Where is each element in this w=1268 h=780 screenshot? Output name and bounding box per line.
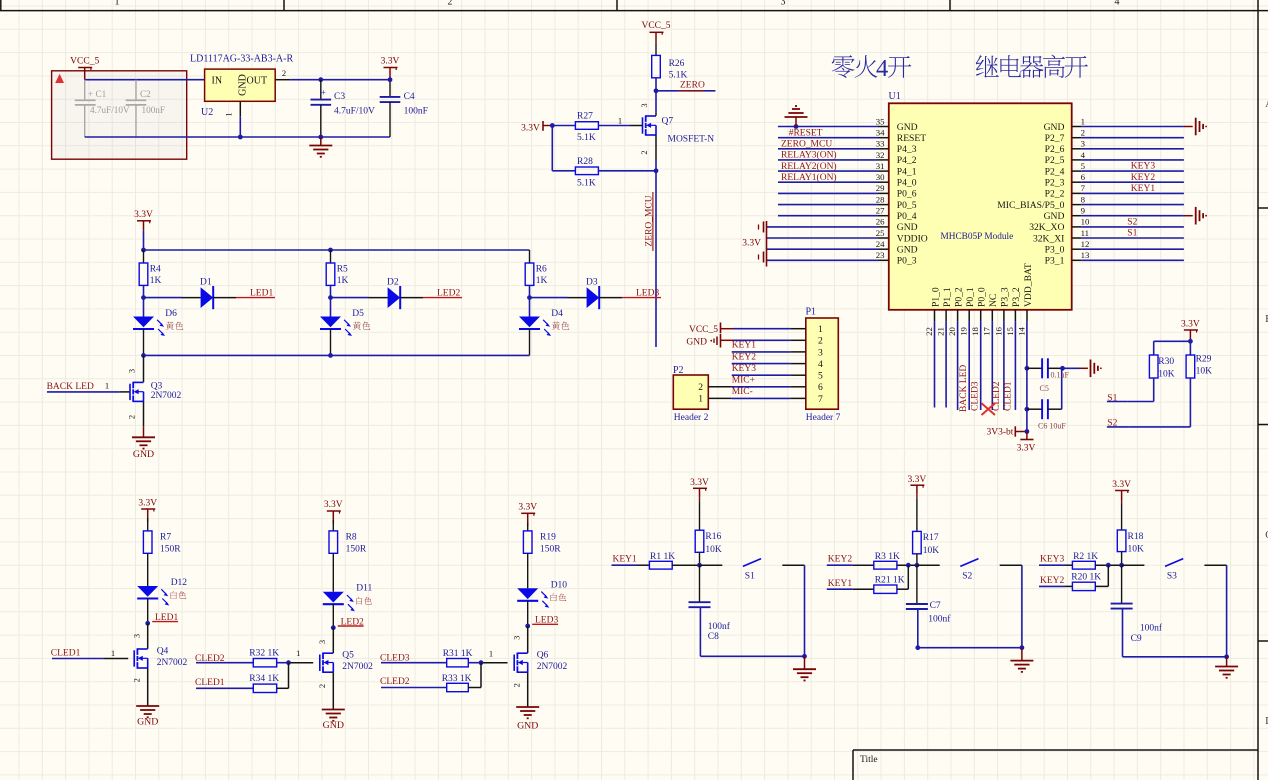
svg-text:C7: C7 (930, 601, 941, 611)
svg-text:D4: D4 (551, 309, 563, 319)
svg-text:R21 1K: R21 1K (875, 575, 905, 585)
svg-text:32K_XI: 32K_XI (1033, 233, 1064, 244)
svg-text:2: 2 (131, 678, 141, 682)
resistor R19 (523, 531, 561, 555)
svg-text:21: 21 (936, 327, 946, 336)
wire to diode D1 (144, 297, 201, 299)
wire R8 to LED (332, 553, 334, 591)
svg-text:20: 20 (947, 327, 957, 336)
resistor R16 (695, 530, 722, 555)
wire 3.3V to R16 (699, 498, 701, 530)
svg-text:1: 1 (489, 649, 493, 659)
svg-text:S1: S1 (1127, 229, 1137, 239)
net label BACK LED (47, 382, 94, 392)
capacitor C3 (311, 80, 376, 137)
wire KEY2 to R3 (853, 564, 874, 566)
svg-text:R6: R6 (536, 265, 547, 275)
svg-text:P0_0: P0_0 (977, 287, 988, 307)
capacitor C2 (masked) (126, 80, 165, 137)
resistor R32 (249, 649, 279, 667)
pin 1 Q4 gate (111, 648, 115, 658)
wire U1 pin 19 down (968, 321, 970, 410)
net label CLED2 (R33) (380, 677, 410, 687)
wire R20 up (1095, 565, 1108, 586)
node R28 junction (654, 168, 659, 173)
U1 pin 21 (936, 287, 953, 336)
wire BACK LED to Q3 gate (47, 391, 130, 393)
svg-text:100nF: 100nF (142, 105, 166, 115)
wire 3.3V to R17 (916, 495, 918, 532)
svg-text:31: 31 (876, 161, 885, 171)
resistor R31 (443, 649, 473, 667)
svg-text:29: 29 (876, 183, 885, 193)
svg-text:LD1117AG-33-AB3-A-R: LD1117AG-33-AB3-A-R (190, 54, 293, 65)
svg-text:R33 1K: R33 1K (442, 674, 472, 684)
svg-text:5.1K: 5.1K (577, 133, 596, 143)
net label CLED3 (R31) (380, 654, 410, 664)
svg-text:KEY3: KEY3 (732, 364, 757, 374)
node R4 bottom (141, 295, 146, 300)
svg-text:VDD_BAT: VDD_BAT (1023, 263, 1034, 307)
P2 pin 2 (698, 382, 731, 393)
U1 pin 22 (924, 287, 941, 336)
resistor R28 (575, 157, 598, 189)
node R18 column (1119, 563, 1124, 568)
sheet top zone tick 2 (283, 0, 285, 11)
svg-text:KEY1: KEY1 (1131, 184, 1156, 194)
switch S1 (700, 559, 805, 582)
svg-text:CLED2: CLED2 (992, 381, 1002, 411)
U1 pin 4 wire (1045, 150, 1184, 166)
svg-text:1: 1 (115, 0, 120, 8)
resistor R3 (874, 552, 900, 569)
net label LED2 (423, 288, 462, 298)
svg-text:KEY2: KEY2 (1040, 576, 1065, 586)
transistor Q4 (134, 647, 187, 669)
svg-text:1: 1 (105, 381, 109, 391)
svg-text:C2: C2 (140, 89, 151, 99)
sheet zone number 4 (1115, 0, 1120, 8)
net label LED1 (152, 613, 178, 623)
net label MIC+ (P1) (732, 376, 755, 386)
svg-text:LED3: LED3 (636, 288, 659, 298)
P1 pin 4 (790, 359, 823, 370)
svg-text:R32 1K: R32 1K (249, 649, 279, 659)
svg-text:27: 27 (876, 206, 885, 216)
ground (U1 pin35) (785, 106, 808, 129)
svg-text:3: 3 (127, 369, 137, 373)
net label KEY3 (U1) (1131, 162, 1156, 172)
svg-text:10K: 10K (1128, 545, 1145, 555)
svg-text:GND: GND (517, 721, 538, 732)
svg-text:4: 4 (818, 359, 823, 370)
net label CLED2 (rot) (992, 381, 1002, 411)
svg-text:3: 3 (818, 347, 823, 358)
resistor R27 (575, 112, 598, 144)
svg-text:U1: U1 (889, 91, 901, 102)
svg-text:KEY1: KEY1 (828, 579, 853, 589)
wire VDD_BAT down (1026, 321, 1028, 431)
svg-text:MIC_BIAS/P5_0: MIC_BIAS/P5_0 (997, 200, 1064, 211)
svg-text:4.7uF/10V: 4.7uF/10V (90, 105, 130, 115)
svg-text:3.3V: 3.3V (690, 478, 709, 488)
svg-text:3: 3 (639, 103, 649, 107)
svg-text:6: 6 (1081, 172, 1086, 182)
net label MIC- (P1) (732, 387, 753, 397)
svg-text:LED1: LED1 (250, 288, 273, 298)
svg-text:P3_0: P3_0 (1045, 245, 1065, 256)
svg-text:P0_4: P0_4 (897, 211, 917, 222)
wire rail to R4 (143, 250, 145, 263)
svg-text:P4_3: P4_3 (897, 144, 917, 155)
svg-text:CLED1: CLED1 (1004, 381, 1014, 411)
U1 pin 16 (993, 287, 1010, 336)
node R17 column (915, 563, 920, 568)
wire D5 to rail (330, 329, 332, 355)
resistor R1 (649, 552, 675, 569)
svg-text:3: 3 (781, 0, 786, 8)
U2 pin 1 (224, 101, 241, 116)
ground GND (P1) (686, 334, 733, 348)
svg-text:S2: S2 (1127, 217, 1137, 227)
wire to node (S2) (897, 564, 917, 566)
wire R19 to LED (527, 553, 529, 588)
net label KEY2 (1039, 576, 1065, 586)
sheet right border line (1257, 0, 1259, 780)
net label S2 (R29) (1107, 419, 1129, 429)
svg-text:150R: 150R (160, 545, 181, 555)
svg-text:S1: S1 (745, 571, 755, 581)
wire D10 to Q6 (527, 601, 529, 626)
resistor R33 (442, 674, 472, 692)
svg-text:D6: D6 (165, 309, 177, 319)
capacitor C7 (906, 601, 951, 624)
svg-text:Title: Title (860, 755, 878, 765)
svg-text:19: 19 (959, 327, 969, 336)
title text 1 (832, 55, 912, 82)
LED D10 (517, 580, 567, 608)
svg-text:1K: 1K (337, 276, 349, 286)
svg-text:D3: D3 (586, 278, 598, 288)
svg-text:RELAY3(ON): RELAY3(ON) (781, 150, 837, 161)
U1 pin 35 wire (778, 116, 918, 133)
svg-text:1K: 1K (150, 276, 162, 286)
power 3.3V bus (U1 left) (742, 221, 766, 267)
svg-text:R27: R27 (577, 112, 593, 122)
wire R6 to node (529, 285, 531, 297)
svg-text:3.3V: 3.3V (908, 475, 927, 485)
U1 pin 7 wire (1045, 183, 1184, 200)
wire LED bottom rail (144, 354, 530, 356)
wire KEY2 to R20 (1065, 585, 1072, 587)
header P2 body (673, 365, 709, 423)
wire node to LED D6 (143, 298, 145, 317)
svg-text:1: 1 (1081, 116, 1085, 126)
node 3.3V R27 (550, 123, 555, 128)
svg-text:26: 26 (876, 217, 885, 227)
capacitor C8 (689, 602, 731, 642)
svg-text:KEY2: KEY2 (1131, 173, 1156, 183)
net label S1 (U1) (1127, 229, 1137, 239)
node LED1 (145, 621, 150, 626)
wire R33 up to node (468, 663, 481, 688)
pin 1 Q7 gate (618, 115, 622, 125)
ground (U1 pin9) (1184, 207, 1207, 225)
svg-text:32: 32 (876, 150, 885, 160)
svg-text:2N7002: 2N7002 (537, 662, 568, 672)
net label KEY2 (U1) (1131, 173, 1156, 183)
U1 pin 13 wire (1045, 250, 1184, 267)
svg-text:D2: D2 (387, 278, 399, 288)
wire VCC_5 to P1.1 (733, 328, 790, 330)
svg-text:R5: R5 (337, 265, 348, 275)
svg-text:BACK LED: BACK LED (47, 382, 94, 392)
svg-text:P4_1: P4_1 (897, 166, 917, 177)
svg-text:8: 8 (1081, 194, 1086, 204)
svg-text:MOSFET-N: MOSFET-N (668, 135, 715, 145)
resistor R5 (326, 263, 348, 286)
node U2 GND rail (238, 135, 243, 140)
ground below Q4 (136, 706, 159, 728)
svg-text:30: 30 (876, 172, 885, 182)
svg-text:3.3V: 3.3V (324, 500, 343, 510)
wire ground rail (85, 136, 390, 138)
sheet right zone divider 3 (1258, 640, 1268, 642)
svg-text:4.7uF/10V: 4.7uF/10V (334, 107, 375, 117)
svg-text:10K: 10K (923, 546, 940, 556)
wire node to LED D5 (330, 298, 332, 317)
U1 pin 1 wire (1044, 116, 1184, 133)
wire R21 up (897, 565, 908, 589)
svg-text:RESET: RESET (897, 133, 926, 144)
svg-text:CLED1: CLED1 (195, 678, 225, 688)
svg-text:R4: R4 (150, 265, 161, 275)
node Q5 gate (286, 660, 291, 665)
ground below Q5 (322, 710, 345, 732)
svg-text:16: 16 (993, 327, 1003, 336)
wire 3.3V to R30 (1154, 341, 1191, 355)
U1 pin 3 wire (1045, 139, 1184, 156)
wire U1 pin 17 down (991, 321, 993, 410)
svg-text:3: 3 (131, 634, 141, 638)
wire 3.3V to R29 (1189, 341, 1191, 355)
svg-text:4: 4 (1115, 0, 1120, 8)
svg-text:R20 1K: R20 1K (1071, 573, 1101, 583)
U1 pin 32 wire (778, 150, 917, 166)
svg-text:24: 24 (876, 239, 885, 249)
wire U2 OUT to 3.3V (290, 79, 390, 81)
svg-text:15: 15 (1005, 327, 1015, 336)
node rail right S3 (1224, 654, 1229, 659)
svg-text:P0_5: P0_5 (897, 200, 917, 211)
power 3.3V (R7) (138, 499, 157, 519)
U1 pin 11 wire (1033, 228, 1184, 245)
svg-text:10: 10 (1081, 217, 1090, 227)
U1 pin 27 wire (778, 206, 917, 223)
U1 pin 5 wire (1045, 161, 1184, 178)
svg-text:3: 3 (511, 636, 521, 640)
wire S2 right down (1021, 565, 1023, 648)
svg-text:GND: GND (1044, 211, 1065, 222)
U1 pin 30 wire (778, 172, 917, 189)
svg-text:OUT: OUT (247, 76, 268, 87)
wire rail to R5 (330, 250, 332, 263)
P1 pin 2 (790, 336, 823, 347)
wire C9 column (1121, 565, 1123, 603)
node R5 bottom (328, 295, 333, 300)
svg-text:KEY1: KEY1 (613, 554, 638, 564)
wire D6 to rail (143, 329, 145, 355)
svg-text:NC: NC (988, 294, 999, 307)
svg-text:3.3V: 3.3V (1181, 320, 1200, 330)
svg-text:1: 1 (296, 648, 300, 658)
net label KEY3 (P1) (732, 364, 757, 374)
sheet top zone tick 3 (616, 0, 618, 11)
pin 1 Q3 gate (105, 381, 109, 391)
diode D2 (387, 278, 400, 310)
svg-text:3: 3 (1081, 139, 1086, 149)
svg-text:3.3V: 3.3V (742, 239, 761, 249)
P1 pin 5 (790, 371, 823, 382)
wire U1 pin 22 down (934, 321, 936, 407)
node C5 left (1025, 366, 1030, 371)
svg-text:VCC_5: VCC_5 (689, 325, 718, 335)
capacitor C6 (1027, 399, 1066, 430)
wire to node (S3) (1095, 564, 1121, 566)
wire LED top rail (144, 249, 530, 251)
wire to R27 (552, 125, 575, 127)
svg-text:KEY2: KEY2 (828, 554, 853, 564)
sheet top zone tick 4 (949, 0, 951, 11)
svg-text:C5: C5 (1040, 384, 1049, 393)
svg-text:GND: GND (133, 449, 154, 460)
Q4 pin 2 (131, 668, 147, 706)
Q6 pin 3 (511, 626, 527, 653)
power 3.3V (381, 57, 400, 80)
svg-text:3.3V: 3.3V (381, 57, 400, 67)
svg-text:KEY1: KEY1 (732, 341, 757, 351)
svg-text:1: 1 (698, 394, 703, 405)
wire D12 to Q4 (147, 599, 149, 624)
svg-text:CLED3: CLED3 (971, 381, 981, 411)
U1 pin 24 wire (767, 239, 918, 256)
wire R27 to Q7 gate (599, 125, 643, 127)
wire to diode D2 (331, 297, 388, 299)
sheet right zone letter C (1265, 530, 1268, 541)
svg-text:3.3V: 3.3V (518, 503, 537, 513)
compile-mask region (52, 71, 187, 159)
svg-text:+ C1: + C1 (88, 89, 107, 99)
transistor Q5 (320, 651, 373, 673)
header P1 body (806, 307, 841, 424)
node C4 top (388, 77, 393, 82)
capacitor C5 (1027, 358, 1070, 393)
svg-text:U2: U2 (201, 107, 213, 118)
svg-text:P2_6: P2_6 (1045, 144, 1065, 155)
P1 pin 3 (790, 347, 823, 358)
svg-text:2: 2 (448, 0, 453, 8)
Q7 pin 2 (639, 135, 656, 160)
svg-text:GND: GND (137, 717, 158, 728)
svg-text:3.3V: 3.3V (521, 124, 540, 134)
svg-text:150R: 150R (540, 545, 561, 555)
svg-text:6: 6 (818, 382, 823, 393)
svg-text:1: 1 (224, 112, 234, 116)
svg-text:MIC-: MIC- (732, 387, 753, 397)
resistor R20 (1071, 573, 1101, 591)
node R16 column (697, 563, 702, 568)
svg-text:R2 1K: R2 1K (1073, 552, 1098, 562)
U1 pin 33 wire (778, 139, 917, 156)
svg-text:P3_1: P3_1 (1045, 256, 1065, 267)
U1 pin 31 wire (778, 161, 917, 178)
svg-text:18: 18 (970, 327, 980, 336)
svg-text:P0_2: P0_2 (953, 287, 964, 307)
wire KEY3 to P1.5 (732, 374, 791, 376)
U1 pin 15 (1005, 287, 1022, 336)
net label RELAY2(ON) (781, 161, 837, 172)
wire R32 to Q5 gate (277, 662, 314, 664)
wire KEY1 to P1.3 (732, 351, 791, 353)
net label LED3 (622, 288, 661, 298)
svg-text:1: 1 (111, 648, 115, 658)
svg-text:3.3V: 3.3V (1017, 443, 1036, 453)
svg-text:MHCB05P Module: MHCB05P Module (941, 232, 1014, 242)
svg-text:#RESET: #RESET (789, 128, 823, 138)
U2 pin 2 (275, 68, 290, 80)
svg-text:Header 7: Header 7 (806, 413, 841, 423)
svg-text:17: 17 (982, 327, 992, 336)
svg-text:34: 34 (876, 128, 885, 138)
wire MIC+ to P1.6 (732, 386, 791, 388)
U1 pin 29 wire (778, 183, 917, 200)
svg-text:2: 2 (698, 382, 703, 393)
node KEY3 join (1106, 563, 1111, 568)
net label BACK LED (rot) (959, 365, 969, 412)
U1 pin 8 wire (997, 194, 1184, 211)
sheet top border line (0, 10, 1268, 12)
resistor R29 (1186, 354, 1212, 378)
svg-text:CLED1: CLED1 (51, 649, 81, 659)
svg-text:3V3-bt: 3V3-bt (987, 427, 1014, 437)
net label LED1 (236, 288, 275, 298)
ground below Q6 (516, 707, 539, 732)
net label S2 (U1) (1127, 217, 1137, 227)
svg-text:100nF: 100nF (404, 107, 428, 117)
wire to diode D3 (530, 297, 587, 299)
svg-text:C3: C3 (334, 92, 345, 102)
net label CLED1 (Q4) (51, 649, 81, 659)
U1 pin 12 wire (1045, 239, 1184, 256)
svg-text:RELAY1(ON): RELAY1(ON) (781, 172, 837, 183)
ground (C5) (1091, 360, 1102, 378)
svg-text:ZERO_MCU: ZERO_MCU (781, 140, 832, 150)
svg-text:10K: 10K (705, 545, 722, 555)
svg-text:KEY3: KEY3 (1040, 554, 1065, 564)
svg-text:23: 23 (876, 250, 885, 260)
svg-text:D10: D10 (551, 580, 568, 590)
node R6 bottom (527, 295, 532, 300)
wire R31 to Q6 gate (468, 662, 507, 664)
svg-text:1: 1 (818, 324, 823, 335)
wire KEY3 to R2 (1065, 564, 1072, 566)
svg-text:2: 2 (511, 683, 521, 687)
net label KEY2 (P1) (732, 352, 757, 362)
wire VCC_5 to U2 IN (85, 79, 205, 81)
svg-text:3.3V: 3.3V (1112, 480, 1131, 490)
Q3 pin 2 (127, 401, 144, 426)
svg-text:7: 7 (818, 394, 823, 405)
